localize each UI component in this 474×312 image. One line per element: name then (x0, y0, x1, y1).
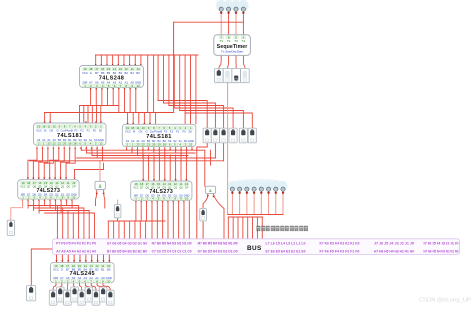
wire 74LS181-1 S pins to trunks (81, 147, 102, 161)
wire AND box right left output (203, 194, 208, 209)
svg-text:13: 13 (168, 182, 172, 186)
probe row indicator L6 (271, 181, 280, 194)
svg-text:18: 18 (140, 182, 144, 186)
wire probes down to jog (232, 194, 283, 215)
svg-text:I7 I6 I5 I4 I3 I2 I1 I0: I7 I6 I5 I4 I3 I2 I1 I0 (424, 240, 460, 245)
wire bundle into 74LS181-1 top F pins (80, 106, 101, 123)
svg-text:D7 D6 D5 D4 D3 D2 D1 D0: D7 D6 D5 D4 D3 D2 D1 D0 (198, 249, 239, 254)
wire jog bundle into 74LS273-2 top (143, 155, 186, 180)
svg-text:19: 19 (37, 125, 41, 129)
svg-text:B1: B1 (101, 267, 105, 271)
svg-text:21: 21 (58, 141, 62, 145)
svg-text:S0: S0 (189, 130, 193, 134)
svg-text:B0: B0 (136, 71, 140, 75)
pin dots 74LS248 top pins (95, 64, 142, 65)
switch S5 mid (114, 205, 121, 218)
wire riser from trunk to probe net (173, 22, 175, 55)
switch J3 below timer (232, 69, 241, 83)
wire switch K1 to bus (197, 143, 207, 238)
svg-text:17: 17 (146, 182, 150, 186)
switch D8 data input (107, 290, 115, 305)
switch S7 left margin (7, 220, 14, 235)
svg-text:P7 P6 P5 P4 P3 P2 P1 P0: P7 P6 P5 P4 P3 P2 P1 P0 (56, 240, 97, 245)
svg-text:G: G (90, 71, 92, 75)
svg-text:B7: B7 (95, 71, 99, 75)
svg-text:CN: CN (138, 130, 142, 134)
svg-text:14: 14 (163, 182, 167, 186)
wire jog bundle to bus section A (28, 206, 94, 241)
arrowheads AND box right outputs (207, 195, 215, 197)
switch K2 control row (211, 128, 219, 143)
probe row indicator L3 (249, 181, 258, 194)
74LS181 U3 (122, 124, 196, 146)
gate box G1 (left of 74LS273-1 output) (95, 181, 105, 189)
74LS273 U5 (131, 181, 192, 201)
svg-text:G: G (61, 267, 63, 271)
wire pale stubs inside bus band (57, 242, 262, 253)
svg-text:B7 B6 B5 B4 B3 B2 B1 B0: B7 B6 B5 B4 B3 B2 B1 B0 (107, 249, 148, 254)
svg-text:Q1: Q1 (61, 184, 65, 188)
svg-text:11: 11 (180, 182, 183, 186)
switch K1 control row (203, 128, 211, 143)
probe row indicator L1 (235, 181, 244, 194)
wire bundle 74LS248 bottom pins down (91, 88, 136, 113)
svg-text:15: 15 (44, 181, 48, 185)
wire bundle trunk to bus section B (108, 221, 145, 241)
pin arrow dots 74LS181 bottom pins (36, 147, 193, 150)
wire bundle trunk down to staircase (158, 55, 196, 118)
switch K6 control row (248, 128, 256, 143)
svg-text:Q1: Q1 (174, 186, 178, 190)
wire probe4 to timer T4 (242, 13, 244, 35)
arrowheads into 74LS181-2 top pins (126, 123, 151, 125)
wire trunk above 74LS248 (96, 54, 199, 56)
Seque Timer U7 (214, 35, 251, 56)
svg-text:10: 10 (136, 84, 140, 88)
svg-text:10: 10 (185, 197, 189, 201)
svg-text:B2: B2 (95, 267, 99, 271)
wire bus left to switch B (31, 249, 52, 286)
wire probe2 to timer T2 (228, 13, 230, 35)
svg-text:Q0: Q0 (66, 184, 70, 188)
wire AND box left outputs (96, 190, 105, 209)
svg-text:18: 18 (163, 143, 167, 147)
wire staircase to switch row (158, 101, 252, 129)
svg-text:Q7: Q7 (140, 186, 144, 190)
svg-text:74LS273: 74LS273 (149, 189, 173, 195)
wire timer switch down to probe jog (227, 83, 229, 215)
svg-text:F1: F1 (176, 130, 180, 134)
arrowheads into 74LS273-1 top pins (27, 178, 67, 180)
svg-text:C7 C6 C5 C4 C3 C2 C1 C0: C7 C6 C5 C4 C3 C2 C1 C0 (152, 249, 193, 254)
svg-text:B2: B2 (124, 71, 128, 75)
svg-text:G: G (146, 130, 148, 134)
svg-text:14: 14 (50, 181, 54, 185)
switch D5 data input (85, 287, 93, 302)
svg-text:&: & (209, 188, 212, 193)
svg-text:L7 L6 L5 L4 L3 L2 L1 L0: L7 L6 L5 L4 L3 L2 L1 L0 (266, 240, 307, 245)
svg-text:10: 10 (142, 126, 146, 130)
switch J2 below timer (223, 69, 232, 83)
svg-text:19: 19 (158, 143, 162, 147)
arrowheads into 74LS245 top pins (55, 260, 110, 262)
svg-text:18: 18 (73, 141, 77, 145)
probe P2 (timer output indicator) (224, 1, 233, 14)
svg-text:12: 12 (61, 181, 65, 185)
svg-text:18: 18 (27, 181, 31, 185)
switch S8 lower left (27, 286, 36, 301)
svg-text:23: 23 (136, 143, 140, 147)
svg-text:20: 20 (63, 141, 67, 145)
svg-text:BUS: BUS (247, 245, 262, 252)
probe row indicator L7 (278, 181, 287, 194)
svg-text:15: 15 (157, 182, 161, 186)
switch J4 below timer (241, 69, 250, 83)
svg-text:12: 12 (99, 141, 103, 145)
probe row indicator L0 (228, 181, 237, 194)
svg-text:74LS181: 74LS181 (146, 134, 172, 140)
wire 74LS245 bottom pins to switches (53, 283, 110, 290)
switch K3 control row (220, 128, 228, 143)
glow halo top probes (216, 0, 226, 11)
svg-text:VCC: VCC (53, 267, 59, 271)
74LS245 U6 (51, 262, 115, 283)
switch D7 data input (99, 287, 107, 302)
wire switch K2 K3 bottoms to trunks (215, 143, 223, 161)
wire bundle trunk to 74LS248 top pins (96, 55, 141, 65)
switch J1 below timer (215, 69, 224, 83)
svg-text:11: 11 (136, 126, 139, 130)
arrowheads into 74LS181-1 top pins (43, 122, 102, 124)
74LS181 U2 (34, 123, 107, 145)
svg-text:AorB: AorB (156, 130, 162, 134)
probe row indicator L4 (257, 181, 266, 194)
switch D6 data input (92, 290, 100, 305)
wire probe jog horizontals (228, 215, 283, 218)
wire AND box right right output (213, 194, 224, 238)
switch K4 control row (229, 128, 237, 143)
switch D0 data input (49, 290, 57, 305)
svg-text:&: & (99, 184, 102, 189)
svg-text:VCC: VCC (125, 130, 131, 134)
svg-text:22: 22 (142, 143, 146, 147)
svg-text:T3: T3 (234, 39, 238, 43)
svg-text:VCC: VCC (82, 71, 88, 75)
wire horizontal trunk y112 (45, 112, 174, 114)
wire bundle into 74LS181-2 top (185, 113, 196, 124)
switch K5 control row (239, 128, 247, 143)
svg-text:16: 16 (151, 182, 155, 186)
svg-text:74LS248: 74LS248 (99, 75, 125, 81)
svg-text:S0: S0 (99, 128, 103, 132)
wire horizontal net to probes row (174, 21, 244, 23)
svg-text:22: 22 (53, 141, 57, 145)
svg-text:A7 A6 A5 A4 A3 A2 A1 A0: A7 A6 A5 A4 A3 A2 A1 A0 (56, 249, 97, 254)
gate box G2 (right of 74LS273-2) (205, 186, 215, 193)
wire to 74LS273-1 CP pin (75, 163, 104, 177)
wire trunk to 74LS181-1 M CN pins (45, 113, 51, 123)
wire 74LS273-2 left bottom pins to trunk (136, 201, 147, 222)
wire probe bundle to bus (228, 217, 262, 239)
wire mid switch to trunk (117, 218, 119, 221)
svg-text:23: 23 (47, 141, 51, 145)
wire jog bundle 74LS181-1 to 74LS273-1 top (28, 147, 75, 179)
svg-text:AorB: AorB (67, 128, 73, 132)
wire into AND box left (99, 161, 101, 181)
svg-text:T2: T2 (227, 39, 231, 43)
svg-text:F0: F0 (182, 130, 186, 134)
svg-text:VCC: VCC (36, 128, 42, 132)
svg-text:20: 20 (152, 143, 156, 147)
svg-text:G7 G6 G5 G4 G3 G2 G1 G0: G7 G6 G5 G4 G3 G2 G1 G0 (107, 240, 148, 245)
wire trunk y221 (108, 220, 165, 222)
74LS273 U4 (18, 180, 79, 200)
svg-text:B3: B3 (119, 71, 123, 75)
svg-text:B5: B5 (107, 71, 111, 75)
svg-text:12: 12 (189, 143, 193, 147)
svg-text:CP: CP (72, 184, 76, 188)
arrowhead into 74LS273-1 CP (73, 178, 75, 180)
svg-text:Tx StepDepStart: Tx StepDepStart (221, 50, 243, 54)
arrowheads into bus section N (151, 239, 191, 241)
svg-text:B0: B0 (107, 267, 111, 271)
wire bundle 74LS273-1 bottom pins down (23, 200, 73, 214)
svg-text:J7 J6 J5 J4 J3 J2 J1 J0: J7 J6 J5 J4 J3 J2 J1 J0 (374, 240, 415, 245)
svg-text:B1: B1 (130, 71, 134, 75)
wire stubs above bus P labels (57, 238, 94, 242)
svg-text:F1: F1 (87, 128, 91, 132)
svg-text:10: 10 (72, 195, 76, 199)
svg-text:74LS273: 74LS273 (36, 188, 60, 194)
pin dots 74LS273 and 74LS248 bottom pins (22, 88, 185, 202)
svg-text:19: 19 (68, 141, 72, 145)
svg-text:11: 11 (47, 125, 50, 129)
svg-text:CSDN @bLong_UP: CSDN @bLong_UP (419, 298, 471, 304)
svg-text:74LS181: 74LS181 (57, 133, 83, 139)
bus band BUS (53, 239, 460, 255)
svg-text:B6: B6 (101, 71, 105, 75)
svg-text:B4: B4 (113, 71, 117, 75)
svg-text:10: 10 (185, 182, 189, 186)
svg-text:11: 11 (67, 181, 70, 185)
svg-text:M7 M6 M5 M4 M3 M2 M1 M0: M7 M6 M5 M4 M3 M2 M1 M0 (198, 240, 239, 245)
wire switch S6 bottom to bus (202, 221, 204, 238)
probe row indicator L5 (264, 181, 273, 194)
glow halo probe row (229, 179, 287, 189)
probe P3 (timer output indicator) (232, 1, 241, 14)
svg-text:N7 N6 N5 N4 N3 N2 N1 N0: N7 N6 N5 N4 N3 N2 N1 N0 (152, 240, 193, 245)
wire 74LS273-1 MR to switch A (11, 200, 23, 220)
svg-text:F3: F3 (164, 130, 168, 134)
svg-text:N7 N6 N5 N4 N3 N2 N1 N0: N7 N6 N5 N4 N3 N2 N1 N0 (424, 249, 460, 254)
svg-text:F3: F3 (74, 128, 78, 132)
switch D3 data input (71, 287, 79, 302)
svg-text:H7 H6 H5 H4 H3 H2 H1 H0: H7 H6 H5 H4 H3 H2 H1 H0 (374, 249, 415, 254)
svg-text:CP: CP (185, 186, 189, 190)
wire probe3 to timer T3 (235, 13, 237, 35)
svg-text:18: 18 (131, 126, 135, 130)
svg-text:13: 13 (55, 181, 59, 185)
arrowheads into 74LS273-2 top pins (142, 179, 188, 181)
svg-text:K7 K6 K5 K4 K3 K2 K1 K0: K7 K6 K5 K4 K3 K2 K1 K0 (320, 240, 361, 245)
annotation text (CJK) near bus (257, 226, 308, 231)
wire probe1 to timer T1 (220, 13, 222, 35)
svg-text:Q0: Q0 (179, 186, 183, 190)
svg-text:19: 19 (126, 126, 130, 130)
switch D4 data input (78, 290, 86, 305)
wire horizontal route y105 (80, 105, 119, 107)
svg-text:18: 18 (42, 125, 46, 129)
wire riser continuation to mid trunk (148, 55, 174, 113)
74LS248 U1 (80, 66, 144, 88)
wire bundle 74LS181-2 bottom pins down (127, 147, 192, 159)
svg-text:21: 21 (147, 143, 151, 147)
wire trunk to AND box right (205, 150, 211, 186)
svg-text:F7 F6 F5 F4 F3 F2 F1 F0: F7 F6 F5 F4 F3 F2 F1 F0 (320, 249, 361, 254)
svg-text:T1: T1 (219, 39, 223, 43)
probe P4 (timer output indicator) (239, 1, 248, 14)
svg-text:17: 17 (33, 181, 37, 185)
svg-text:F0: F0 (93, 128, 97, 132)
wire bundle 74LS273-2 to bus section N (152, 201, 189, 240)
svg-text:CN: CN (49, 128, 53, 132)
wire timer outputs to switches (219, 56, 245, 69)
svg-text:74LS245: 74LS245 (70, 271, 96, 277)
svg-text:19: 19 (134, 182, 138, 186)
svg-text:10: 10 (72, 181, 76, 185)
svg-text:10: 10 (53, 125, 57, 129)
switch D2 data input (64, 290, 72, 305)
wire mid horizontal trunks (30, 150, 224, 161)
arrowheads AND box left outputs (96, 193, 105, 195)
wire trunk to 74LS181-2 left pins (128, 113, 156, 124)
probe P1 (timer output indicator) (217, 1, 226, 14)
svg-text:F2: F2 (170, 130, 174, 134)
svg-text:VCC: VCC (133, 186, 139, 190)
wire bus section A to 74LS245 top (57, 254, 110, 262)
svg-text:Q7: Q7 (27, 184, 31, 188)
svg-text:E7 E6 E5 E4 E3 E2 E1 E0: E7 E6 E5 E4 E3 E2 E1 E0 (266, 249, 307, 254)
svg-text:16: 16 (38, 181, 42, 185)
svg-text:19: 19 (21, 181, 25, 185)
svg-text:F2: F2 (80, 128, 84, 132)
svg-text:VCC: VCC (20, 184, 26, 188)
probe row indicator L2 (242, 181, 251, 194)
svg-text:G: G (56, 128, 58, 132)
wire mid switch top (117, 200, 119, 205)
switch D1 data input (56, 287, 64, 302)
switch S6 right mid (200, 208, 207, 221)
svg-text:12: 12 (174, 182, 178, 186)
svg-text:10: 10 (107, 279, 111, 283)
svg-text:T4: T4 (242, 39, 246, 43)
